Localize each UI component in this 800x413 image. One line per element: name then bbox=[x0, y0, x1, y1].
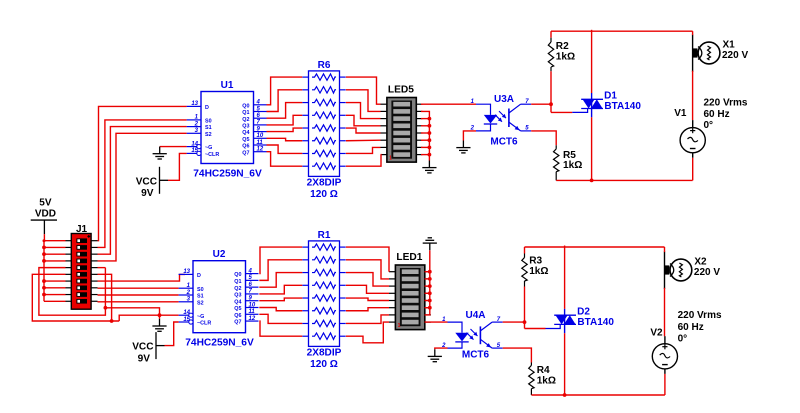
svg-text:VDD: VDD bbox=[35, 209, 56, 220]
resistor R4 1k bbox=[529, 363, 556, 396]
power 5V VDD symbol bbox=[31, 198, 57, 241]
wire U1 Q5 to R6 row 6 bbox=[267, 138, 303, 140]
connector J1 bbox=[66, 224, 98, 309]
svg-text:R1: R1 bbox=[318, 230, 331, 241]
wire LED1 pin row 3 to bus bbox=[425, 285, 430, 287]
wire J1 left pin 5 loop bbox=[39, 268, 106, 316]
svg-text:Q2: Q2 bbox=[242, 117, 249, 123]
wire U1 Q0 to R6 row 1 bbox=[267, 77, 303, 105]
svg-text:0°: 0° bbox=[704, 120, 714, 131]
power VCC 9V symbol for U2 bbox=[156, 332, 165, 359]
svg-text:Q4: Q4 bbox=[242, 130, 249, 136]
svg-text:220 Vrms: 220 Vrms bbox=[704, 98, 748, 109]
svg-text:1: 1 bbox=[389, 155, 392, 161]
svg-text:10: 10 bbox=[257, 133, 264, 139]
svg-text:220 Vrms: 220 Vrms bbox=[678, 310, 722, 321]
wire R6 row 4 to LED5 pin 4 bbox=[346, 115, 381, 126]
svg-text:S0: S0 bbox=[205, 119, 212, 125]
wire J1 left pin 4 bbox=[44, 260, 66, 262]
svg-text:1: 1 bbox=[398, 323, 401, 329]
resistor R5 1k bbox=[554, 145, 583, 180]
wire J1 left pin 2 bbox=[44, 246, 66, 248]
wire R1 row 4 to LED1 pin 4 bbox=[346, 285, 389, 293]
wire R1 row 7 to LED1 pin 7 bbox=[346, 315, 389, 324]
svg-text:Q2: Q2 bbox=[234, 286, 241, 292]
wire top rail (R2 to lamp X1) bbox=[551, 30, 693, 32]
ground below U2 area bbox=[152, 319, 166, 331]
wire LED1 anode bus to ground above bbox=[425, 250, 430, 315]
AC source V2 bbox=[650, 328, 677, 374]
wire R1 row 6 to LED1 pin 6 bbox=[346, 308, 389, 311]
wire R6 row 5 to LED5 pin 5 bbox=[346, 128, 381, 133]
svg-text:14: 14 bbox=[191, 141, 198, 147]
svg-text:15: 15 bbox=[191, 148, 198, 154]
wire U1 pin 3 to J1 right pin 4 bbox=[98, 133, 187, 261]
svg-text:2: 2 bbox=[186, 290, 191, 296]
wire U2 Q3 to R1 row 4 bbox=[259, 285, 302, 294]
svg-text:U1: U1 bbox=[221, 80, 234, 91]
wire J1 right pin 6 bbox=[98, 274, 112, 321]
wire D1 vertical (bottom) bbox=[591, 117, 593, 180]
svg-text:Q7: Q7 bbox=[242, 150, 249, 156]
svg-text:X2: X2 bbox=[694, 256, 707, 267]
svg-text:2X8DIP: 2X8DIP bbox=[307, 177, 342, 188]
wire U4A pin 5 to R4 bbox=[503, 348, 532, 362]
wire J1 left pin 10 bbox=[44, 300, 66, 302]
lamp X1 220V bbox=[693, 35, 749, 73]
wire V2 to bottom rail bbox=[664, 374, 666, 395]
wire D1 anode vertical (top) bbox=[591, 30, 593, 93]
D1 gate lead bbox=[572, 109, 587, 113]
svg-text:BTA140: BTA140 bbox=[604, 101, 641, 112]
wire U1 Q7 to R6 row 8 bbox=[267, 152, 303, 167]
wire J1 left pin 1 bbox=[44, 240, 66, 242]
transistor D2 triac BTA140 bbox=[554, 306, 614, 333]
svg-text:9V: 9V bbox=[141, 188, 154, 199]
svg-text:220 V: 220 V bbox=[722, 50, 748, 61]
svg-text:R6: R6 bbox=[318, 60, 331, 71]
wire LED1 pin row 5 to bus bbox=[425, 300, 430, 302]
ground below LED5 bbox=[422, 161, 436, 173]
wire R1 row 3 to LED1 pin 3 bbox=[346, 273, 389, 287]
svg-text:1kΩ: 1kΩ bbox=[529, 266, 548, 277]
svg-text:Q1: Q1 bbox=[242, 110, 249, 116]
svg-text:D: D bbox=[205, 105, 209, 111]
wire bottom rail (R5 to V1) bbox=[556, 179, 692, 181]
svg-text:4: 4 bbox=[256, 100, 261, 106]
svg-text:220 V: 220 V bbox=[694, 267, 720, 278]
wire R6 row 1 to LED5 pin 1 bbox=[346, 77, 381, 104]
ground below U3A bbox=[456, 141, 470, 153]
svg-text:Q0: Q0 bbox=[234, 272, 241, 278]
wire LED5 pin row 5 to bus bbox=[421, 132, 429, 134]
svg-text:2: 2 bbox=[194, 121, 199, 127]
wire lamp X1 top corner bbox=[692, 31, 694, 35]
wire U1 pin 1 to J1 right pin 2 bbox=[98, 120, 187, 248]
wire J1 left pin 7 bbox=[44, 280, 66, 282]
svg-text:11: 11 bbox=[249, 309, 256, 315]
svg-text:~G: ~G bbox=[205, 145, 212, 151]
svg-text:9V: 9V bbox=[138, 353, 151, 364]
svg-text:60 Hz: 60 Hz bbox=[678, 322, 704, 333]
svg-text:D: D bbox=[197, 273, 201, 279]
wire U2 Q7 to R1 row 8 bbox=[259, 321, 302, 336]
wire J1 right pin 5 bbox=[98, 267, 106, 269]
svg-text:4: 4 bbox=[248, 268, 253, 274]
svg-text:~CLR: ~CLR bbox=[197, 321, 211, 327]
wire lamp X1 to V1 bbox=[692, 71, 694, 120]
wire J1 right pin 8 to U2 pin 1 bbox=[98, 287, 179, 289]
wire J1 left bus (VDD net) bbox=[43, 241, 45, 302]
svg-text:Q1: Q1 bbox=[234, 279, 241, 285]
wire R6 row 7 to LED5 pin 7 bbox=[346, 147, 381, 153]
svg-text:D2: D2 bbox=[577, 306, 590, 317]
wire U1 Q1 to R6 row 2 bbox=[267, 90, 303, 112]
wire LED1 pin 8 to U4A pin 1 bbox=[425, 321, 448, 323]
wire bottom rail (R4 to V2) bbox=[531, 394, 665, 396]
svg-text:V2: V2 bbox=[650, 328, 663, 339]
wire lamp X2 to V2 bbox=[664, 288, 666, 337]
wire LED5 pin row 4 to bus bbox=[421, 125, 429, 127]
wire U2 pin 15 ~CLR to VCC bbox=[165, 322, 179, 346]
wire U4A pin 2 to ground bbox=[435, 348, 448, 349]
svg-text:R2: R2 bbox=[556, 41, 569, 52]
svg-text:U4A: U4A bbox=[465, 310, 485, 321]
svg-text:Q6: Q6 bbox=[234, 313, 241, 319]
svg-text:MCT6: MCT6 bbox=[462, 350, 490, 361]
svg-text:S0: S0 bbox=[197, 287, 204, 293]
svg-text:S2: S2 bbox=[205, 132, 212, 138]
wire R1 row 2 to LED1 pin 2 bbox=[346, 260, 389, 279]
wire R1 row 5 to LED1 pin 5 bbox=[346, 298, 389, 300]
transistor D1 triac BTA140 bbox=[581, 91, 641, 118]
wire U3A pin 7 to R2/D1 gate node bbox=[531, 103, 551, 105]
wire R6 row 2 to LED5 pin 2 bbox=[346, 90, 381, 112]
wire U4A pin 7 to R3/D2 gate node bbox=[503, 321, 525, 323]
wire R1 row 1 to LED1 pin 1 bbox=[346, 247, 389, 272]
wire LED5 pin row 6 to bus bbox=[421, 139, 429, 141]
wire U2 Q4 to R1 row 5 bbox=[259, 298, 302, 301]
svg-text:1kΩ: 1kΩ bbox=[556, 51, 575, 62]
svg-text:~CLR: ~CLR bbox=[205, 152, 219, 158]
op-amp U1 74HC259N_6V latch bbox=[187, 80, 267, 179]
svg-text:15: 15 bbox=[183, 317, 190, 323]
wire LED5 pin row 3 to bus bbox=[421, 118, 429, 120]
svg-text:~G: ~G bbox=[197, 314, 204, 320]
svg-text:Q4: Q4 bbox=[234, 299, 241, 305]
svg-text:Q7: Q7 bbox=[234, 320, 241, 326]
svg-text:BTA140: BTA140 bbox=[577, 317, 614, 328]
AC source V1 bbox=[674, 108, 705, 158]
svg-text:60 Hz: 60 Hz bbox=[704, 109, 730, 120]
svg-text:13: 13 bbox=[183, 269, 190, 275]
ground above LED1 bbox=[423, 238, 437, 250]
svg-text:S1: S1 bbox=[205, 125, 212, 131]
svg-text:13: 13 bbox=[191, 101, 198, 107]
svg-text:MCT6: MCT6 bbox=[490, 137, 518, 148]
wire LED5 cathode bus to ground bbox=[421, 111, 429, 160]
wire R3 to D2 gate bbox=[525, 328, 546, 330]
resistor R3 1k bbox=[522, 247, 549, 329]
ground below U4A bbox=[428, 349, 442, 361]
wire U2 Q6 to R1 row 7 bbox=[259, 314, 302, 323]
op-amp U3A MCT6 optocoupler bbox=[470, 94, 532, 147]
wire U1 Q6 to R6 row 7 bbox=[267, 145, 303, 153]
wire top rail (R3 to lamp X2) bbox=[525, 246, 665, 248]
svg-text:D1: D1 bbox=[604, 91, 617, 102]
wire U1 pin 15 ~CLR to VCC bbox=[168, 153, 187, 180]
svg-text:Q5: Q5 bbox=[242, 137, 249, 143]
wire U2 pin 14 ~G bbox=[119, 315, 178, 321]
svg-text:U3A: U3A bbox=[494, 94, 514, 105]
wire J1 left pin 9 bbox=[44, 294, 66, 296]
svg-text:LED5: LED5 bbox=[388, 85, 414, 96]
resistor pack R1 2X8DIP 120 ohm bbox=[302, 230, 345, 370]
wire U1 Q3 to R6 row 4 bbox=[267, 115, 303, 125]
ground near U1 bbox=[153, 147, 167, 159]
wire LED1 pin row 6 to bus bbox=[425, 307, 430, 309]
svg-text:12: 12 bbox=[249, 316, 256, 322]
svg-text:120 Ω: 120 Ω bbox=[310, 359, 338, 370]
wire LED5 pin row 7 to bus bbox=[421, 146, 429, 148]
svg-text:0°: 0° bbox=[678, 333, 688, 344]
op-amp U4A MCT6 optocoupler bbox=[441, 310, 503, 361]
svg-text:X1: X1 bbox=[723, 39, 736, 50]
wire R6 row 3 to LED5 pin 3 bbox=[346, 103, 381, 119]
wire U3A pin 2 to ground bbox=[463, 131, 476, 141]
wire V1 to bottom rail bbox=[692, 158, 694, 181]
svg-text:S1: S1 bbox=[197, 294, 204, 300]
svg-text:11: 11 bbox=[257, 140, 264, 146]
wire U1 pin 2 to J1 right pin 3 bbox=[98, 127, 187, 255]
svg-text:S2: S2 bbox=[197, 300, 204, 306]
svg-text:Q3: Q3 bbox=[234, 293, 241, 299]
resistor pack R6 2X8DIP 120 ohm bbox=[302, 60, 345, 200]
wire J1 right pin 9 to U2 pin 2 bbox=[98, 294, 179, 296]
wire LED1 pin row 4 to bus bbox=[425, 292, 430, 294]
svg-text:5V: 5V bbox=[39, 198, 52, 209]
wire D2 vertical (bottom) bbox=[564, 333, 566, 395]
wire U1 pin 14 ~G to ground bbox=[160, 146, 187, 148]
svg-text:V1: V1 bbox=[674, 108, 687, 119]
wire J1 right pin 7 to U2 pin 13 bbox=[98, 274, 186, 281]
svg-text:LED1: LED1 bbox=[396, 252, 422, 263]
power VCC 9V symbol for U1 bbox=[160, 167, 169, 194]
wire U2 Q0 to R1 row 1 bbox=[259, 247, 302, 274]
svg-text:12: 12 bbox=[257, 147, 264, 153]
wire U2 Q5 to R1 row 6 bbox=[259, 308, 302, 311]
wire U2 Q1 to R1 row 2 bbox=[259, 260, 302, 281]
svg-text:120 Ω: 120 Ω bbox=[310, 189, 338, 200]
wire D2 vertical (top) bbox=[564, 246, 566, 309]
svg-text:Q5: Q5 bbox=[234, 306, 241, 312]
wire U2 Q2 to R1 row 3 bbox=[259, 273, 302, 288]
resistor R2 1k bbox=[548, 31, 575, 112]
wire U3A pin 5 to R5 bbox=[531, 131, 556, 145]
D2 gate lead bbox=[546, 325, 561, 329]
wire lamp X2 top corner bbox=[664, 247, 666, 252]
svg-text:14: 14 bbox=[183, 310, 190, 316]
wire LED5 pin 9 to U3A pin 1 bbox=[421, 103, 476, 105]
wire R6 row 8 to LED5 pin 8 bbox=[346, 155, 381, 167]
svg-text:74HC259N_6V: 74HC259N_6V bbox=[193, 168, 262, 179]
wire R1 row 8 to LED1 pin 8 bbox=[346, 322, 389, 343]
wire LED1 pin row 2 to bus bbox=[425, 278, 430, 280]
wire J1 left pin 3 bbox=[44, 253, 66, 255]
wire U1 pin 13 to J1 right pin 1 bbox=[98, 106, 187, 240]
wire J1 left pin 6 loop bbox=[32, 274, 119, 321]
svg-text:1kΩ: 1kΩ bbox=[563, 160, 582, 171]
wire U1 Q4 to R6 row 5 bbox=[267, 128, 303, 132]
wire J1 left pin 8 bbox=[44, 287, 66, 289]
svg-text:VCC: VCC bbox=[132, 342, 154, 353]
wire LED1 pin row 1 to bus bbox=[425, 271, 430, 273]
wire R6 row 6 to LED5 pin 6 bbox=[346, 139, 381, 142]
svg-text:Q3: Q3 bbox=[242, 124, 249, 130]
wire LED5 pin row 8 to bus bbox=[421, 154, 429, 156]
LED bar display LED1 bbox=[389, 252, 431, 330]
svg-text:Q0: Q0 bbox=[242, 103, 249, 109]
svg-text:U2: U2 bbox=[213, 249, 226, 260]
LED bar display LED5 bbox=[381, 85, 423, 163]
svg-text:2X8DIP: 2X8DIP bbox=[307, 347, 342, 358]
op-amp U2 74HC259N_6V latch bbox=[179, 249, 259, 348]
svg-text:1kΩ: 1kΩ bbox=[537, 376, 556, 387]
wire node to ground (U2 section) bbox=[105, 308, 159, 315]
svg-text:74HC259N_6V: 74HC259N_6V bbox=[185, 338, 254, 349]
svg-text:Q6: Q6 bbox=[242, 144, 249, 150]
wire U1 Q2 to R6 row 3 bbox=[267, 103, 303, 119]
wire J1 right pin 10 to U2 pin 3 bbox=[98, 301, 179, 303]
svg-text:10: 10 bbox=[249, 302, 256, 308]
wire R2 to D1 gate bbox=[551, 111, 572, 113]
lamp X2 220V bbox=[665, 252, 721, 290]
svg-text:VCC: VCC bbox=[136, 176, 158, 187]
